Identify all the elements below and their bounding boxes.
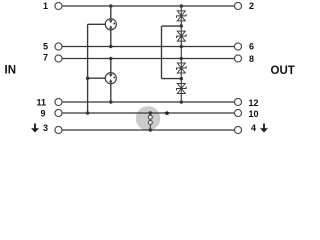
wire line 11-12: [62, 101, 235, 103]
terminal 10: [234, 109, 241, 116]
wire bypass: node A jog: [162, 25, 182, 27]
terminal 7: [55, 55, 62, 62]
terminal 1: [55, 2, 62, 9]
terminal 4: [234, 126, 241, 133]
wire line 1-2: [62, 5, 235, 7]
svg-text:6: 6: [249, 42, 254, 52]
wire bypass: node B jog: [162, 78, 182, 80]
svg-text:2: 2: [249, 1, 254, 11]
wire line 7-8: [62, 58, 235, 60]
gas discharge tube F2: [105, 72, 116, 84]
isolating spark gap electrodes: [148, 113, 152, 130]
terminal 12: [234, 98, 241, 105]
svg-text:7: 7: [43, 52, 48, 62]
svg-text:3: 3: [43, 123, 48, 133]
svg-text:11: 11: [36, 97, 46, 107]
wire vertical through gas discharge tube F1 (line1 to line5): [110, 6, 112, 47]
suppressor diode D1: [177, 11, 187, 21]
svg-text:1: 1: [43, 1, 48, 11]
terminal 11: [55, 98, 62, 105]
terminal 2: [234, 2, 241, 9]
terminal 9: [55, 109, 62, 116]
wire line 5-6: [62, 46, 235, 48]
svg-text:IN: IN: [5, 64, 17, 76]
svg-text:8: 8: [249, 54, 254, 64]
wire vertical through gas discharge tube F2 (line7 to line11): [110, 59, 112, 103]
wire suppressor-diode chain vertical (line1 to line11): [180, 6, 182, 102]
wire left branch vertical (GDT left leads to line 9): [87, 24, 89, 113]
isolating spark gap highlight circle: [136, 106, 160, 130]
suppressor diode D2: [177, 31, 187, 41]
terminal 6: [234, 43, 241, 50]
ground arrow left: [31, 124, 39, 133]
svg-text:4: 4: [251, 123, 256, 133]
svg-text:12: 12: [249, 98, 259, 108]
terminal 3: [55, 126, 62, 133]
svg-text:5: 5: [43, 42, 48, 52]
suppressor diode D4: [177, 84, 187, 94]
svg-text:OUT: OUT: [271, 65, 295, 77]
ground arrow right: [260, 124, 268, 133]
wire GDT F2 left lead: [88, 77, 105, 79]
wire bypass vertical: [161, 26, 163, 79]
wire line 9-10: [62, 112, 235, 114]
svg-text:10: 10: [249, 109, 259, 119]
suppressor diode D3: [177, 63, 187, 73]
star marker: [164, 110, 169, 115]
svg-text:9: 9: [40, 108, 45, 118]
junction dots: [109, 4, 113, 8]
wire GDT F1 left lead: [88, 23, 105, 25]
wire line 3-4: [62, 129, 235, 131]
gas discharge tube F1: [105, 19, 116, 31]
terminal 5: [55, 43, 62, 50]
terminal 8: [234, 55, 241, 62]
